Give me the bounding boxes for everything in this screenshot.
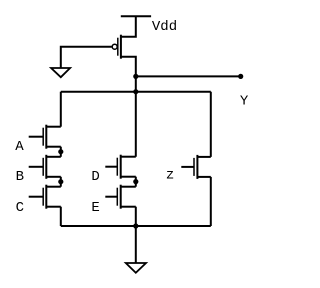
wire ground stem (135, 226, 137, 263)
svg-text:Y: Y (240, 94, 249, 110)
Vdd power rail bar (121, 15, 151, 17)
wire E drain to bottom rail (135, 207, 137, 226)
wire nmos top rail (61, 91, 211, 93)
nmos B (29, 155, 61, 179)
ground (pmos gate) (51, 68, 70, 77)
wire right branch top (210, 92, 212, 157)
svg-text:Vdd: Vdd (152, 19, 177, 35)
pmos pull-up transistor (112, 35, 121, 59)
svg-text:A: A (15, 139, 24, 155)
junction D-E (133, 179, 138, 184)
nmos D (105, 155, 135, 179)
junction top rail / middle column (133, 89, 138, 94)
nmos C (29, 185, 61, 209)
wire left branch top (60, 92, 62, 127)
node Y terminal dot (238, 74, 243, 79)
wire pmos drain down middle column (121, 57, 136, 157)
ground (bottom) (126, 263, 146, 273)
wire pmos gate to ground (61, 47, 112, 68)
svg-text:B: B (16, 169, 24, 185)
wire D-E (135, 177, 137, 187)
junction middle/Y (133, 74, 138, 79)
wire Z drain to bottom rail (210, 177, 212, 226)
svg-text:z: z (166, 168, 174, 184)
svg-text:C: C (16, 200, 24, 216)
nmos E (105, 185, 135, 209)
svg-text:E: E (91, 200, 99, 216)
nmos A (29, 125, 61, 149)
wire B-C (60, 177, 62, 187)
wire C drain to bottom rail (60, 207, 62, 226)
wire Vdd rail to PMOS source (121, 16, 136, 37)
svg-text:D: D (91, 169, 99, 185)
nmos Z (181, 155, 211, 179)
wire A-B (60, 147, 62, 157)
wire bottom rail (61, 225, 211, 227)
junction bottom rail / ground stem (133, 223, 138, 228)
wire output Y line (136, 75, 241, 77)
junction A-B (58, 149, 63, 154)
junction B-C (58, 179, 63, 184)
